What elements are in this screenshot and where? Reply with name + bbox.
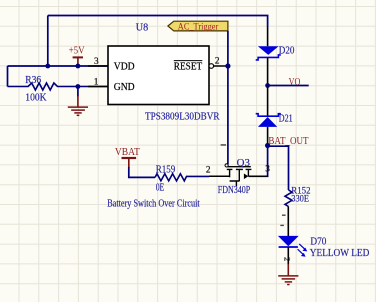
wire from port down through pin2 node to Q3 gate: [227, 31, 229, 164]
wire left vertical x=48: [47, 16, 49, 67]
pin 2 RESET with bubble: [209, 56, 228, 68]
wire row y=66 to IC pin 3: [8, 65, 109, 67]
Q3 right pin (3): [248, 165, 270, 177]
resistor R152: [285, 186, 311, 207]
svg-text:Q3: Q3: [237, 158, 250, 169]
R152 pin dash: [282, 215, 286, 216]
svg-text:R36: R36: [25, 75, 41, 86]
svg-text:D21: D21: [279, 114, 293, 125]
Q3 left pin (2): [206, 166, 230, 177]
node VO: [265, 77, 309, 88]
wire top horizontal from left vertical to diode column: [48, 16, 268, 28]
svg-text:2: 2: [215, 56, 220, 66]
svg-text:YELLOW LED: YELLOW LED: [310, 248, 370, 259]
svg-text:1: 1: [94, 78, 99, 88]
svg-text:100K: 100K: [25, 92, 47, 103]
diode D21 (schottky): [256, 114, 293, 127]
wire R152 to LED: [287, 207, 289, 237]
Q3 gate pin number 1 (rotated dash): [221, 144, 226, 146]
svg-text:Battery Switch Over Circuit: Battery Switch Over Circuit: [107, 198, 200, 209]
node junction pin2 (228,66): [225, 63, 230, 68]
svg-text:D70: D70: [310, 236, 326, 247]
svg-text:VO: VO: [289, 77, 301, 88]
wire BAT_OUT node down to Q3 drain: [248, 146, 267, 177]
wire D21 to BAT_OUT node: [267, 127, 269, 146]
svg-text:VBAT: VBAT: [115, 147, 140, 158]
svg-text:U8: U8: [136, 23, 148, 34]
port AC_Trigger: [168, 21, 228, 32]
wire D20 to VO node: [267, 58, 269, 86]
power VBAT: [115, 147, 140, 168]
wire LED to ground: [287, 247, 289, 265]
svg-text:BAT_OUT: BAT_OUT: [268, 136, 308, 147]
wire VO node down to D21: [267, 86, 269, 117]
wire left vertical x=7.5: [7, 66, 9, 87]
svg-text:0E: 0E: [156, 183, 165, 194]
ground (below D70): [278, 264, 298, 285]
transistor Q3 FDN340P P-MOSFET: [218, 158, 252, 196]
pin 3 VDD: [88, 57, 108, 67]
svg-text:2: 2: [206, 166, 211, 176]
LED pin 1 dash: [280, 225, 284, 226]
wire VBAT to R159: [129, 167, 155, 177]
svg-text:3: 3: [265, 165, 270, 175]
pin 1 GND: [88, 78, 108, 88]
svg-text:AC_Trigger: AC_Trigger: [178, 22, 219, 33]
node junction (78,66): [76, 64, 81, 69]
svg-text:TPS3809L30DBVR: TPS3809L30DBVR: [145, 111, 220, 122]
svg-text:FDN340P: FDN340P: [218, 185, 251, 196]
node BAT_OUT: [265, 136, 309, 148]
resistor R159: [155, 164, 209, 193]
IC U8 TPS3809L30DBVR: [108, 23, 220, 123]
diode D70 yellow LED: [278, 236, 369, 259]
ground (under R36 / IC GND): [68, 87, 88, 116]
node junction (78,86.5): [76, 84, 81, 89]
svg-text:+5V: +5V: [69, 46, 86, 57]
svg-text:GND: GND: [114, 82, 135, 93]
resistor R36: [8, 75, 109, 103]
wire BAT_OUT node to R152: [268, 146, 289, 190]
node junction (48,66): [45, 64, 50, 69]
svg-text:RESET: RESET: [174, 61, 203, 72]
svg-text:VDD: VDD: [114, 61, 135, 72]
svg-text:330E: 330E: [291, 194, 309, 205]
diode D20 (schottky): [256, 27, 295, 60]
svg-text:3: 3: [94, 57, 99, 67]
power +5V: [69, 46, 86, 66]
svg-text:R159: R159: [156, 164, 176, 175]
svg-text:D20: D20: [279, 46, 295, 57]
